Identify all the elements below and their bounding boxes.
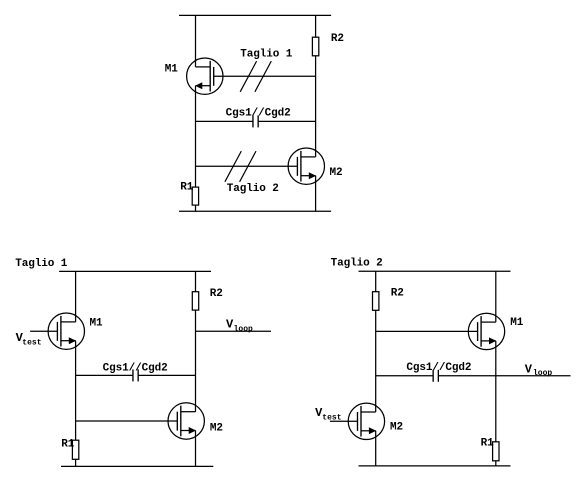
svg-text:loop: loop (533, 369, 552, 378)
svg-text:R1: R1 (61, 439, 75, 451)
svg-text:Cgs1//Cgd2: Cgs1//Cgd2 (406, 362, 471, 374)
svg-text:V: V (525, 362, 533, 376)
svg-text:R1: R1 (481, 438, 495, 450)
svg-text:Cgs1//Cgd2: Cgs1//Cgd2 (226, 108, 291, 120)
svg-text:Cgs1//Cgd2: Cgs1//Cgd2 (103, 362, 168, 374)
svg-text:R2: R2 (391, 288, 404, 300)
svg-text:loop: loop (234, 325, 253, 334)
svg-text:test: test (322, 413, 341, 422)
svg-text:M1: M1 (90, 317, 104, 329)
svg-text:R2: R2 (331, 33, 344, 45)
svg-text:M2: M2 (330, 167, 343, 179)
svg-text:M1: M1 (510, 317, 524, 329)
svg-text:Taglio 2: Taglio 2 (331, 258, 383, 270)
svg-text:Taglio 1: Taglio 1 (240, 49, 293, 61)
svg-text:R2: R2 (210, 288, 223, 300)
svg-text:Taglio 2: Taglio 2 (227, 183, 279, 195)
svg-text:Taglio 1: Taglio 1 (15, 258, 68, 270)
svg-text:M1: M1 (165, 63, 179, 75)
svg-text:M2: M2 (390, 422, 403, 434)
svg-text:M2: M2 (210, 422, 223, 434)
svg-text:test: test (22, 339, 41, 348)
svg-text:R1: R1 (180, 182, 194, 194)
